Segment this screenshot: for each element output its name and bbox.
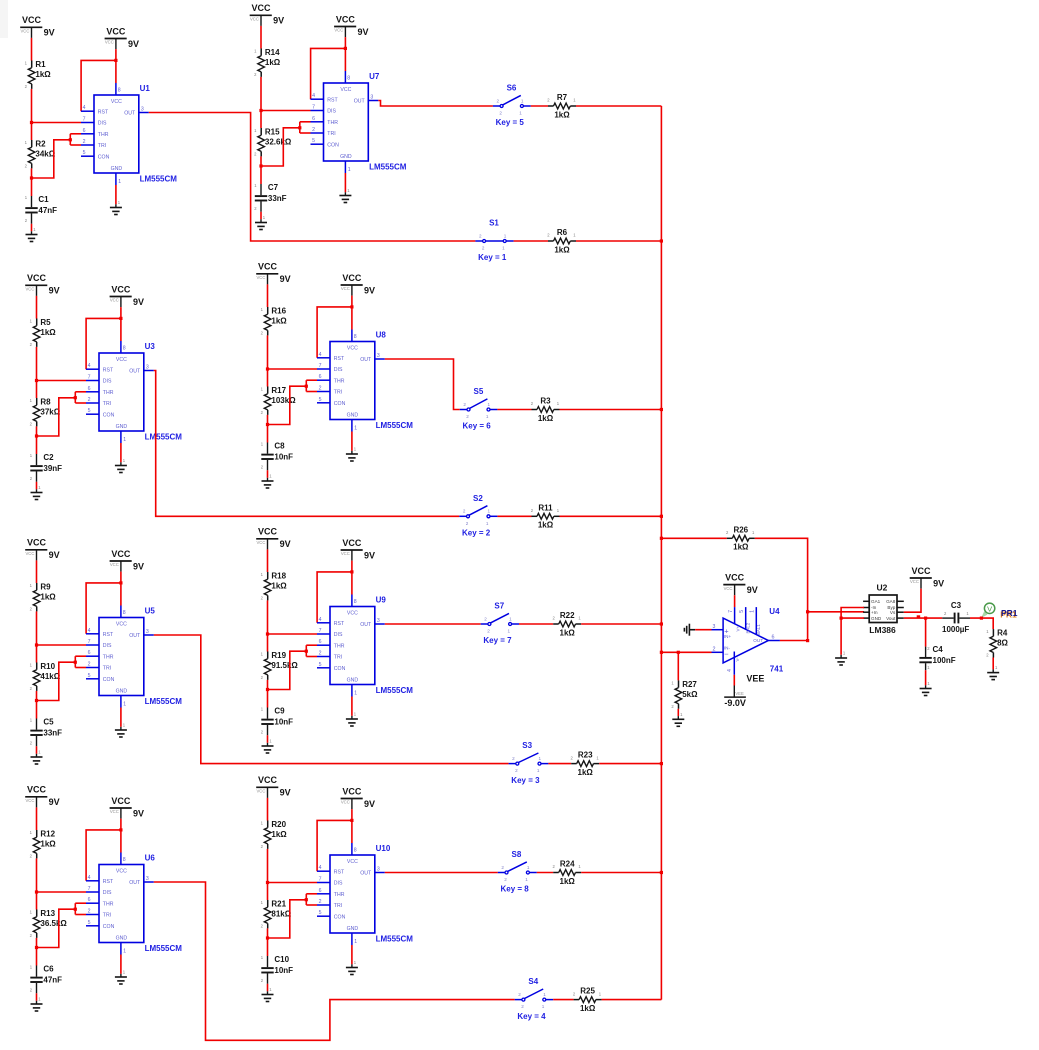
svg-text:U8: U8	[376, 331, 387, 340]
svg-text:5: 5	[319, 397, 322, 403]
svg-text:7: 7	[83, 117, 86, 123]
resistor R16 1kΩ	[261, 306, 288, 335]
svg-text:R7: R7	[557, 93, 568, 102]
svg-text:1: 1	[502, 246, 505, 251]
svg-text:1kΩ: 1kΩ	[554, 245, 570, 254]
svg-text:VCC: VCC	[22, 15, 42, 25]
wire VCC to pin 8	[351, 809, 353, 843]
svg-text:2: 2	[479, 233, 482, 238]
wire RST pin 4 loop to VCC	[86, 318, 121, 369]
svg-text:R4: R4	[997, 629, 1008, 638]
svg-text:VEE: VEE	[735, 691, 744, 696]
svg-text:R20: R20	[271, 820, 286, 829]
svg-text:S2: S2	[473, 494, 483, 503]
svg-text:Key = 1: Key = 1	[478, 253, 507, 262]
svg-text:VCC: VCC	[21, 29, 30, 34]
resistor R25 1kΩ	[573, 987, 602, 1013]
capacitor C5 33nF	[30, 718, 62, 747]
junction VCC/RST node	[114, 59, 117, 62]
svg-text:2: 2	[88, 662, 91, 668]
svg-text:9V: 9V	[364, 550, 375, 560]
svg-text:9V: 9V	[49, 797, 60, 807]
svg-text:1: 1	[527, 865, 530, 870]
ground (U10 pin 1)	[346, 960, 358, 975]
svg-text:4: 4	[83, 105, 86, 111]
svg-text:C1: C1	[38, 195, 49, 204]
svg-text:2: 2	[713, 647, 716, 653]
wire switch S4 to R25	[553, 999, 573, 1001]
wire bus to op-amp IN-	[661, 651, 711, 653]
svg-text:VCC: VCC	[341, 800, 350, 805]
junction summing bus	[660, 239, 663, 242]
junction DIS node	[35, 643, 38, 646]
svg-text:5: 5	[739, 610, 745, 613]
svg-text:Key = 8: Key = 8	[501, 885, 530, 894]
svg-text:R22: R22	[560, 611, 575, 620]
svg-text:R6: R6	[557, 228, 568, 237]
svg-text:4: 4	[319, 865, 322, 871]
svg-text:2: 2	[518, 992, 521, 997]
svg-text:Key = 7: Key = 7	[483, 636, 512, 645]
svg-text:6: 6	[312, 116, 315, 122]
svg-text:Key = 5: Key = 5	[496, 118, 525, 127]
wire VCC to pin 8	[351, 561, 353, 595]
svg-text:2: 2	[319, 386, 322, 392]
svg-text:1: 1	[504, 233, 507, 238]
wire DIS node to R10	[36, 645, 38, 663]
wire R5 to DIS node	[36, 347, 38, 381]
svg-text:LM555CM: LM555CM	[145, 697, 183, 706]
wire VCC to R14	[260, 26, 262, 49]
wire R21 to THR node	[267, 928, 269, 938]
svg-text:1000µF: 1000µF	[942, 625, 969, 634]
switch S8 (Key = 8)	[498, 850, 537, 894]
capacitor C3 1000µF	[942, 601, 970, 634]
wire THR/TRI bracket	[37, 392, 87, 436]
svg-text:VCC: VCC	[257, 789, 266, 794]
svg-text:47nF: 47nF	[43, 976, 62, 985]
svg-text:VCC: VCC	[725, 572, 745, 582]
junction THR node	[35, 434, 38, 437]
wire DIS node to R17	[267, 369, 269, 387]
svg-text:9V: 9V	[364, 285, 375, 295]
junction DIS node	[35, 890, 38, 893]
svg-text:9V: 9V	[280, 274, 291, 284]
svg-text:2: 2	[482, 246, 485, 251]
wire op-amp pin 4 to VEE	[733, 675, 735, 686]
svg-text:1: 1	[508, 629, 511, 634]
svg-text:1kΩ: 1kΩ	[40, 328, 56, 337]
op-amp U4 741	[712, 607, 784, 675]
svg-text:VCC: VCC	[110, 562, 119, 567]
junction VCC/RST node	[119, 828, 122, 831]
wire DIS pin 7 of U5	[37, 644, 87, 646]
svg-text:1kΩ: 1kΩ	[265, 58, 281, 67]
wire DIS node to R19	[267, 634, 269, 652]
wire R26 feedback to op-amp output	[755, 538, 808, 640]
resistor R1 1kΩ	[25, 60, 52, 89]
svg-text:2: 2	[88, 909, 91, 915]
VCC power symbol (U6 pin 8)	[110, 796, 144, 819]
svg-text:1kΩ: 1kΩ	[271, 830, 287, 839]
wire op-amp output to LM386 +In	[808, 611, 865, 613]
junction DIS node	[35, 379, 38, 382]
svg-text:VCC: VCC	[26, 287, 35, 292]
ground (U7 pin 1)	[339, 188, 351, 203]
wire C7 to ground	[260, 212, 262, 220]
svg-text:R16: R16	[271, 306, 286, 315]
svg-text:R24: R24	[560, 860, 575, 869]
junction R27 node	[677, 651, 680, 654]
resistor R2 34kΩ	[25, 139, 56, 168]
wire DIS pin 7 of U3	[37, 380, 87, 382]
svg-text:U7: U7	[369, 72, 380, 81]
wire THR/TRI bracket	[32, 134, 82, 178]
wire VCC to R5	[36, 296, 38, 319]
VCC power symbol (R14 chain)	[250, 3, 284, 26]
svg-text:C10: C10	[274, 955, 289, 964]
svg-text:VCC: VCC	[336, 14, 356, 24]
ground (C1)	[26, 227, 38, 242]
svg-text:6: 6	[88, 650, 91, 656]
svg-text:VCC: VCC	[110, 809, 119, 814]
wire DIS node to R8	[36, 381, 38, 399]
svg-text:2: 2	[515, 768, 518, 773]
svg-text:4: 4	[88, 628, 91, 634]
svg-text:R14: R14	[265, 48, 280, 57]
svg-text:PR1: PR1	[1001, 608, 1018, 618]
wire pin 1 to ground	[120, 708, 122, 727]
ground (U8 pin 1)	[346, 447, 358, 462]
svg-text:2: 2	[463, 402, 466, 407]
switch S2 (Key = 2)	[459, 494, 497, 538]
switch S6 (Key = 5)	[493, 84, 531, 128]
svg-text:1: 1	[521, 98, 524, 103]
svg-text:R2: R2	[35, 139, 46, 148]
svg-text:S3: S3	[522, 741, 532, 750]
resistor R23 1kΩ	[570, 751, 599, 777]
wire pin 1 to ground	[344, 173, 346, 192]
wire pin 1 to ground	[351, 697, 353, 716]
junction summing bus	[660, 537, 663, 540]
ground (C6)	[31, 997, 43, 1012]
junction THR node	[266, 423, 269, 426]
resistor R14 1kΩ	[254, 48, 281, 77]
svg-text:9V: 9V	[133, 297, 144, 307]
VCC power symbol (R9 chain)	[25, 538, 59, 561]
wire RST pin 4 loop to VCC	[81, 60, 116, 111]
wire R22 output feed to switch S7	[385, 623, 481, 625]
wire DIS pin 7 of U1	[32, 122, 82, 124]
svg-text:1: 1	[354, 425, 357, 431]
VCC power symbol (R1 chain)	[20, 15, 54, 38]
svg-text:8: 8	[123, 345, 126, 351]
wire C4 to ground	[925, 670, 927, 685]
svg-text:C9: C9	[274, 707, 285, 716]
ground (R27)	[672, 712, 684, 727]
timer IC U9 LM555CM	[317, 595, 413, 697]
svg-text:6: 6	[319, 639, 322, 645]
ground (C5)	[31, 750, 43, 765]
wire pin 1 to ground	[120, 955, 122, 974]
resistor R4 8Ω	[986, 629, 1008, 658]
wire R27 to ground	[677, 709, 679, 716]
svg-text:2: 2	[484, 616, 487, 621]
svg-text:8: 8	[118, 87, 121, 93]
svg-text:1kΩ: 1kΩ	[560, 877, 576, 886]
svg-text:2: 2	[319, 899, 322, 905]
wire THR/TRI bracket	[268, 380, 318, 424]
svg-text:S1: S1	[489, 219, 499, 228]
junction VCC/RST node	[119, 317, 122, 320]
wire DIS node to R15	[260, 111, 262, 129]
resistor R27 5kΩ	[671, 680, 698, 709]
svg-text:U3: U3	[145, 342, 156, 351]
svg-text:Vout: Vout	[886, 616, 896, 621]
svg-text:6: 6	[88, 897, 91, 903]
resistor R7 1kΩ	[547, 93, 576, 119]
wire THR node to C1	[31, 178, 33, 196]
svg-text:5: 5	[88, 920, 91, 926]
svg-text:1: 1	[488, 509, 491, 514]
svg-text:39nF: 39nF	[43, 464, 62, 473]
svg-text:OUT: OUT	[753, 638, 763, 643]
svg-text:1: 1	[542, 1004, 545, 1009]
capacitor C2 39nF	[30, 453, 62, 482]
svg-text:1kΩ: 1kΩ	[578, 768, 594, 777]
svg-text:3: 3	[370, 95, 373, 101]
wire R9 to DIS node	[36, 611, 38, 645]
ground (U4 IN+)	[684, 624, 695, 636]
svg-text:U2: U2	[877, 582, 888, 592]
svg-text:R5: R5	[40, 318, 51, 327]
resistor R5 1kΩ	[30, 318, 57, 347]
wire VCC to LM386 Vs	[904, 589, 921, 613]
resistor R3 1kΩ	[531, 397, 560, 423]
svg-text:9V: 9V	[933, 578, 944, 588]
svg-text:2: 2	[83, 139, 86, 145]
VCC power symbol (U7 pin 8)	[334, 14, 368, 37]
svg-text:1: 1	[537, 768, 540, 773]
svg-text:1kΩ: 1kΩ	[271, 582, 287, 591]
wire THR node to C5	[36, 701, 38, 719]
svg-text:IN+: IN+	[724, 634, 732, 639]
svg-text:10nF: 10nF	[274, 718, 293, 727]
svg-text:R17: R17	[271, 386, 286, 395]
svg-text:VCC: VCC	[334, 28, 343, 33]
wire C10 to ground	[267, 984, 269, 992]
svg-text:1: 1	[543, 992, 546, 997]
wire VCC to R12	[36, 807, 38, 830]
svg-text:1: 1	[509, 616, 512, 621]
svg-text:V-: V-	[735, 657, 740, 662]
wire THR node to C8	[267, 425, 269, 443]
wire R1 to DIS node	[31, 89, 33, 123]
svg-text:100nF: 100nF	[933, 656, 956, 665]
wire switch S8 to R24	[537, 872, 553, 874]
capacitor C7 33nF	[254, 183, 286, 212]
svg-text:1kΩ: 1kΩ	[733, 543, 749, 552]
wire R11 output feed to switch S2	[154, 371, 460, 517]
svg-text:8: 8	[354, 847, 357, 853]
svg-text:VCC: VCC	[258, 527, 278, 537]
junction feedback/LM386 node	[806, 610, 809, 613]
resistor R22 1kΩ	[552, 611, 581, 637]
svg-text:1: 1	[486, 521, 489, 526]
wire VCC to R18	[267, 549, 269, 572]
wire pin 1 to ground	[115, 185, 117, 204]
svg-text:R1: R1	[35, 60, 46, 69]
svg-text:C4: C4	[933, 645, 944, 654]
svg-text:9V: 9V	[358, 27, 369, 37]
svg-text:2: 2	[504, 877, 507, 882]
junction summing bus	[660, 622, 663, 625]
svg-text:U9: U9	[376, 596, 387, 605]
svg-text:1kΩ: 1kΩ	[538, 521, 554, 530]
svg-text:5: 5	[312, 138, 315, 144]
wire VCC to R1	[31, 38, 33, 61]
svg-text:1: 1	[539, 756, 542, 761]
wire THR node to C6	[36, 948, 38, 966]
svg-text:2: 2	[312, 127, 315, 133]
resistor R8 37kΩ	[30, 397, 61, 426]
wire ground to op-amp IN+	[695, 629, 711, 631]
svg-text:10nF: 10nF	[274, 453, 293, 462]
junction THR node	[30, 176, 33, 179]
svg-text:1: 1	[354, 939, 357, 945]
svg-text:Key = 6: Key = 6	[463, 422, 492, 431]
svg-text:U4: U4	[769, 607, 780, 616]
svg-text:41kΩ: 41kΩ	[40, 672, 60, 681]
capacitor C10 10nF	[261, 955, 293, 984]
svg-text:1kΩ: 1kΩ	[580, 1004, 596, 1013]
svg-text:3: 3	[146, 629, 149, 635]
wire DIS pin 7 of U9	[268, 633, 318, 635]
wire DIS pin 7 of U6	[37, 891, 87, 893]
svg-text:4: 4	[319, 617, 322, 623]
timer IC U8 LM555CM	[317, 330, 413, 432]
svg-text:8: 8	[123, 610, 126, 616]
svg-text:2: 2	[463, 509, 466, 514]
junction VCC/RST node	[344, 47, 347, 50]
timer IC U3 LM555CM	[86, 341, 182, 443]
svg-text:GA1: GA1	[871, 599, 881, 604]
VCC power symbol (U9 pin 8)	[341, 538, 375, 561]
switch S4 (Key = 4)	[515, 977, 554, 1021]
VCC power symbol (U2 Vs)	[910, 566, 944, 589]
resistor R19 91.5kΩ	[261, 651, 299, 680]
svg-text:1: 1	[123, 701, 126, 707]
svg-text:VCC: VCC	[341, 551, 350, 556]
wire R11 to summing bus	[560, 515, 662, 517]
svg-text:2: 2	[487, 629, 490, 634]
svg-text:U1: U1	[140, 84, 151, 93]
svg-text:C7: C7	[268, 183, 279, 192]
wire R22 to summing bus	[581, 623, 661, 625]
wire R25 to summing bus	[602, 999, 662, 1001]
wire R17 to THR node	[267, 415, 269, 425]
VCC power symbol (U8 pin 8)	[341, 273, 375, 296]
switch S7 (Key = 7)	[481, 602, 519, 646]
svg-text:47nF: 47nF	[38, 206, 57, 215]
wire pin 1 to ground	[351, 945, 353, 964]
wire RST pin 4 loop to VCC	[86, 583, 121, 634]
svg-text:9V: 9V	[133, 561, 144, 571]
svg-text:6: 6	[319, 888, 322, 894]
svg-text:R21: R21	[271, 899, 286, 908]
wire VCC to R16	[267, 284, 269, 307]
junction THR node	[266, 688, 269, 691]
ground (C8)	[262, 474, 274, 489]
wire VCC to pin 8	[120, 819, 122, 853]
svg-text:6: 6	[772, 635, 775, 641]
timer IC U6 LM555CM	[86, 853, 182, 955]
svg-text:2: 2	[319, 651, 322, 657]
svg-text:R8: R8	[40, 397, 51, 406]
svg-text:GA8: GA8	[886, 599, 896, 604]
wire summing bus (net to op-amp)	[660, 106, 662, 1000]
timer IC U7 LM555CM	[311, 71, 407, 173]
VCC power symbol (R5 chain)	[25, 273, 59, 296]
wire R20 to DIS node	[267, 849, 269, 883]
ground (U6 pin 1)	[115, 970, 127, 985]
timer IC U5 LM555CM	[86, 606, 182, 708]
svg-text:R25: R25	[580, 987, 595, 996]
wire VCC to pin 8	[115, 49, 117, 83]
capacitor C1 47nF	[25, 195, 57, 224]
wire switch S5 to R3	[497, 409, 531, 411]
svg-text:VCC: VCC	[342, 786, 362, 796]
wire DIS node to R13	[36, 892, 38, 910]
VCC power symbol (R16 chain)	[256, 262, 290, 285]
svg-text:Key = 3: Key = 3	[511, 776, 540, 785]
junction DIS node	[266, 881, 269, 884]
svg-text:9V: 9V	[273, 16, 284, 26]
svg-text:VCC: VCC	[251, 3, 271, 13]
wire THR node to C2	[36, 436, 38, 454]
wire R19 to THR node	[267, 680, 269, 690]
svg-text:V+: V+	[735, 626, 740, 632]
svg-text:BAL1: BAL1	[756, 624, 761, 635]
capacitor C6 47nF	[30, 965, 62, 994]
svg-text:4: 4	[88, 363, 91, 369]
ground (C2)	[31, 485, 43, 500]
ground (U1 pin 1)	[110, 200, 122, 215]
wire VCC to pin 8	[120, 572, 122, 606]
ground (U3 pin 1)	[115, 458, 127, 473]
wire VCC to R9	[36, 560, 38, 583]
wire R4 to ground	[992, 658, 994, 670]
junction summing bus	[660, 515, 663, 518]
resistor R13 36.5kΩ	[30, 909, 68, 938]
wire C6 to ground	[36, 993, 38, 1001]
svg-text:33nF: 33nF	[268, 194, 287, 203]
wire DIS pin 7 of U7	[261, 110, 311, 112]
wire R6 to summing bus	[576, 240, 661, 242]
svg-text:741: 741	[770, 664, 784, 673]
wire switch S6 to R7	[531, 105, 548, 107]
junction THR node	[259, 164, 262, 167]
svg-text:4: 4	[312, 93, 315, 99]
svg-text:R12: R12	[40, 829, 55, 838]
svg-text:1kΩ: 1kΩ	[271, 317, 287, 326]
resistor R15 32.6kΩ	[254, 127, 292, 156]
svg-text:1: 1	[118, 179, 121, 185]
svg-text:1kΩ: 1kΩ	[538, 414, 554, 423]
resistor R9 1kΩ	[30, 582, 57, 611]
wire R3 to summing bus	[560, 409, 662, 411]
svg-text:R15: R15	[265, 127, 280, 136]
